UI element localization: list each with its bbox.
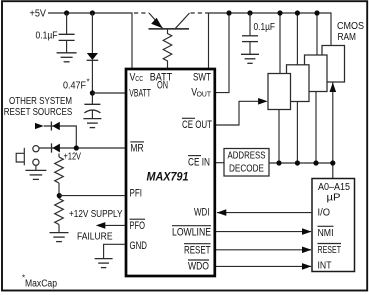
svg-text:MaxCap: MaxCap [25, 278, 57, 289]
svg-text:CMOS: CMOS [337, 21, 364, 32]
wire WDO-INT [216, 265, 311, 267]
wire RESET-RESET [216, 249, 311, 251]
svg-text:RESET SOURCES: RESET SOURCES [4, 107, 73, 118]
op-amp/supervisor IC U1 MAX791 [126, 69, 215, 276]
wire VCC chip3 [316, 13, 318, 55]
ground R2 [50, 233, 69, 242]
capacitor C3 0.47F MaxCap [84, 104, 100, 113]
svg-text:LOWLINE: LOWLINE [172, 226, 211, 238]
wire bus chip2 [296, 102, 298, 164]
svg-text:VBATT: VBATT [129, 87, 151, 99]
svg-text:CC: CC [135, 74, 143, 83]
wire switch to ground [35, 165, 37, 170]
svg-text:CE IN: CE IN [188, 156, 210, 168]
ground U1 [95, 259, 113, 268]
resistor R-base [163, 29, 172, 68]
ground C3 [83, 119, 101, 128]
wire VBATT [92, 92, 125, 94]
junction K [313, 160, 318, 165]
junction G [314, 10, 319, 15]
svg-text:CE OUT: CE OUT [182, 119, 212, 131]
svg-text:OUT: OUT [197, 90, 212, 99]
junction H [226, 10, 231, 15]
svg-text:OTHER SYSTEM: OTHER SYSTEM [9, 96, 72, 107]
wire diode branch [91, 13, 93, 53]
junction B [90, 10, 95, 15]
junction M [74, 145, 79, 150]
RAM chip U5 [322, 46, 345, 83]
svg-text:RAM: RAM [338, 32, 357, 43]
resistor R2 [55, 199, 64, 225]
RAM chip U4 [305, 55, 328, 92]
junction I [276, 160, 281, 165]
junction D [247, 10, 252, 15]
svg-text:SWT: SWT [193, 71, 211, 83]
wire cap1 lead [66, 13, 68, 34]
wire GND [104, 244, 125, 258]
svg-text:DECODE: DECODE [229, 163, 264, 174]
wire SWT drop [208, 13, 210, 68]
wire dashed collector link [191, 12, 207, 14]
wire CE OUT [216, 101, 266, 125]
wire WDI [217, 212, 312, 214]
wire VOUT [216, 13, 229, 93]
svg-text:I/O: I/O [318, 208, 331, 219]
junction F [295, 10, 300, 15]
svg-text:RESET: RESET [184, 244, 211, 256]
junction E [277, 10, 282, 15]
junction N [57, 193, 62, 198]
microprocessor U6 [312, 179, 355, 272]
junction C [90, 90, 95, 95]
svg-text:WDO: WDO [188, 261, 209, 273]
transistor Q1 collector [176, 13, 190, 28]
svg-text:PFI: PFI [130, 187, 143, 199]
svg-text:WDI: WDI [194, 207, 210, 219]
junction J [295, 160, 300, 165]
ground C2 [241, 54, 259, 63]
arrow input upper [35, 123, 44, 129]
svg-text:*: * [87, 78, 90, 87]
svg-text:ADDRESS: ADDRESS [228, 150, 266, 161]
svg-text:MAX791: MAX791 [147, 170, 189, 184]
svg-text:0.1µF: 0.1µF [36, 31, 58, 42]
wire CE IN [216, 162, 224, 164]
address decode box [224, 149, 269, 177]
wire +5V rail right segment [206, 13, 331, 46]
wire bus chip3 [315, 92, 317, 164]
svg-text:ON: ON [157, 79, 168, 91]
capacitor C2 0.1uF [242, 36, 258, 42]
wire PFO + arrow [99, 224, 125, 226]
svg-text:PFO: PFO [130, 220, 146, 232]
junction L [330, 160, 335, 165]
svg-text:µP: µP [327, 193, 341, 204]
wire bus chip1 [278, 110, 280, 164]
svg-text:RESET: RESET [318, 245, 342, 256]
wire upper reset branch [44, 126, 77, 148]
RAM chip U2 [268, 74, 291, 110]
arrow into chip U5 [330, 83, 337, 93]
wire address bus [269, 162, 333, 164]
ground S1 [25, 170, 46, 179]
svg-text:0.47F: 0.47F [63, 81, 86, 92]
svg-text:+12V: +12V [64, 152, 82, 163]
diode D2 [52, 144, 60, 153]
svg-text:+12V SUPPLY: +12V SUPPLY [69, 209, 123, 220]
svg-text:+5V: +5V [30, 9, 47, 20]
wire MR line [39, 147, 125, 149]
pushbutton S1 [33, 146, 39, 152]
svg-text:0.1µF: 0.1µF [254, 22, 276, 33]
wire VCC chip2 [296, 13, 298, 65]
svg-text:A0–A15: A0–A15 [318, 182, 350, 193]
resistor R1 [58, 154, 60, 158]
transistor Q1 base bar [149, 28, 190, 30]
RAM chip U3 [287, 65, 310, 102]
wire +5V rail left segment [48, 13, 132, 68]
diode D1 [52, 122, 60, 131]
ground C1 [57, 53, 77, 62]
svg-text:FAILURE: FAILURE [77, 232, 113, 243]
junction A [64, 10, 69, 15]
capacitor C1 0.1uF [59, 34, 75, 40]
wire VCC chip1 [279, 13, 281, 74]
wire dashed emitter link [134, 12, 149, 14]
wire LOWLINE-NMI [216, 231, 311, 233]
svg-text:INT: INT [318, 261, 332, 272]
transistor Q1 emitter [149, 13, 163, 28]
diode D3 [87, 53, 98, 60]
svg-text:MR: MR [130, 143, 143, 155]
wire PFI [59, 195, 125, 197]
svg-text:GND: GND [130, 240, 148, 252]
wire bus chip4 / uP drop [332, 82, 334, 179]
svg-text:NMI: NMI [318, 228, 334, 239]
